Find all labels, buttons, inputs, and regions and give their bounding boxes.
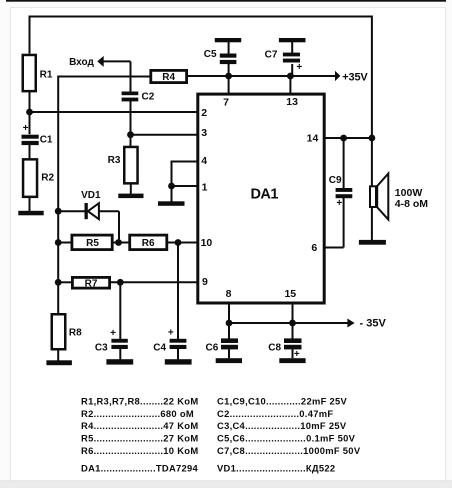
svg-text:C1: C1: [40, 135, 53, 146]
svg-text:R8: R8: [69, 328, 82, 339]
svg-text:+: +: [110, 328, 116, 339]
svg-text:+35V: +35V: [342, 71, 368, 83]
svg-text:8: 8: [226, 288, 232, 300]
svg-text:R5........................27 K: R5........................27 KоМ: [81, 433, 198, 444]
svg-text:10: 10: [201, 237, 213, 249]
svg-text:DA1...................TDA7294: DA1...................TDA7294: [81, 463, 199, 474]
svg-text:R5: R5: [86, 238, 99, 249]
svg-text:C5: C5: [204, 49, 217, 60]
svg-text:C3,C4...................10mF 2: C3,C4...................10mF 25V: [217, 420, 347, 431]
svg-text:R6........................10 K: R6........................10 KоМ: [81, 445, 198, 456]
svg-text:3: 3: [201, 127, 207, 139]
svg-text:C1,C9,C10............22mF 25V: C1,C9,C10............22mF 25V: [217, 396, 348, 407]
svg-text:R1,R3,R7,R8........22 KоМ: R1,R3,R7,R8........22 KоМ: [81, 396, 198, 407]
svg-text:R2.......................680 о: R2.......................680 оМ: [81, 408, 194, 419]
svg-text:1: 1: [202, 182, 208, 194]
svg-text:C7,C8....................1000m: C7,C8....................1000mF 50V: [217, 445, 361, 456]
svg-text:+: +: [336, 198, 342, 209]
svg-text:DA1: DA1: [250, 186, 278, 202]
svg-text:+: +: [23, 123, 29, 134]
svg-text:C2........................0.47: C2........................0.47mF: [217, 408, 333, 419]
svg-text:15: 15: [284, 288, 296, 300]
svg-text:C2: C2: [142, 92, 155, 103]
svg-text:VD1........................КД5: VD1........................КД522: [217, 463, 335, 474]
svg-text:C6: C6: [206, 343, 219, 354]
svg-text:R3: R3: [108, 155, 121, 166]
svg-text:- 35V: - 35V: [360, 317, 387, 329]
svg-text:R2: R2: [41, 173, 54, 184]
svg-text:13: 13: [286, 96, 298, 108]
svg-text:+: +: [296, 62, 302, 73]
svg-text:C4: C4: [153, 343, 166, 354]
svg-text:C9: C9: [329, 175, 342, 186]
svg-text:C7: C7: [265, 50, 278, 61]
svg-text:7: 7: [223, 97, 229, 109]
svg-text:9: 9: [202, 276, 208, 288]
svg-text:VD1: VD1: [81, 190, 101, 201]
svg-text:R4: R4: [162, 72, 175, 83]
svg-text:R4........................47 K: R4........................47 KоМ: [81, 420, 198, 431]
svg-text:R7: R7: [85, 278, 98, 289]
svg-text:R1: R1: [40, 70, 53, 81]
svg-text:Вход: Вход: [69, 57, 94, 68]
svg-text:C5,C6.....................0.1m: C5,C6.....................0.1mF 50V: [217, 433, 356, 444]
svg-text:+: +: [294, 349, 300, 360]
svg-text:R6: R6: [142, 238, 155, 249]
svg-text:4-8 оМ: 4-8 оМ: [395, 198, 429, 210]
svg-text:14: 14: [307, 132, 319, 144]
svg-text:+: +: [168, 327, 174, 338]
svg-text:2: 2: [201, 107, 207, 119]
svg-text:C8: C8: [268, 343, 281, 354]
svg-text:6: 6: [311, 242, 317, 254]
svg-text:C3: C3: [95, 343, 108, 354]
svg-text:4: 4: [201, 155, 207, 167]
